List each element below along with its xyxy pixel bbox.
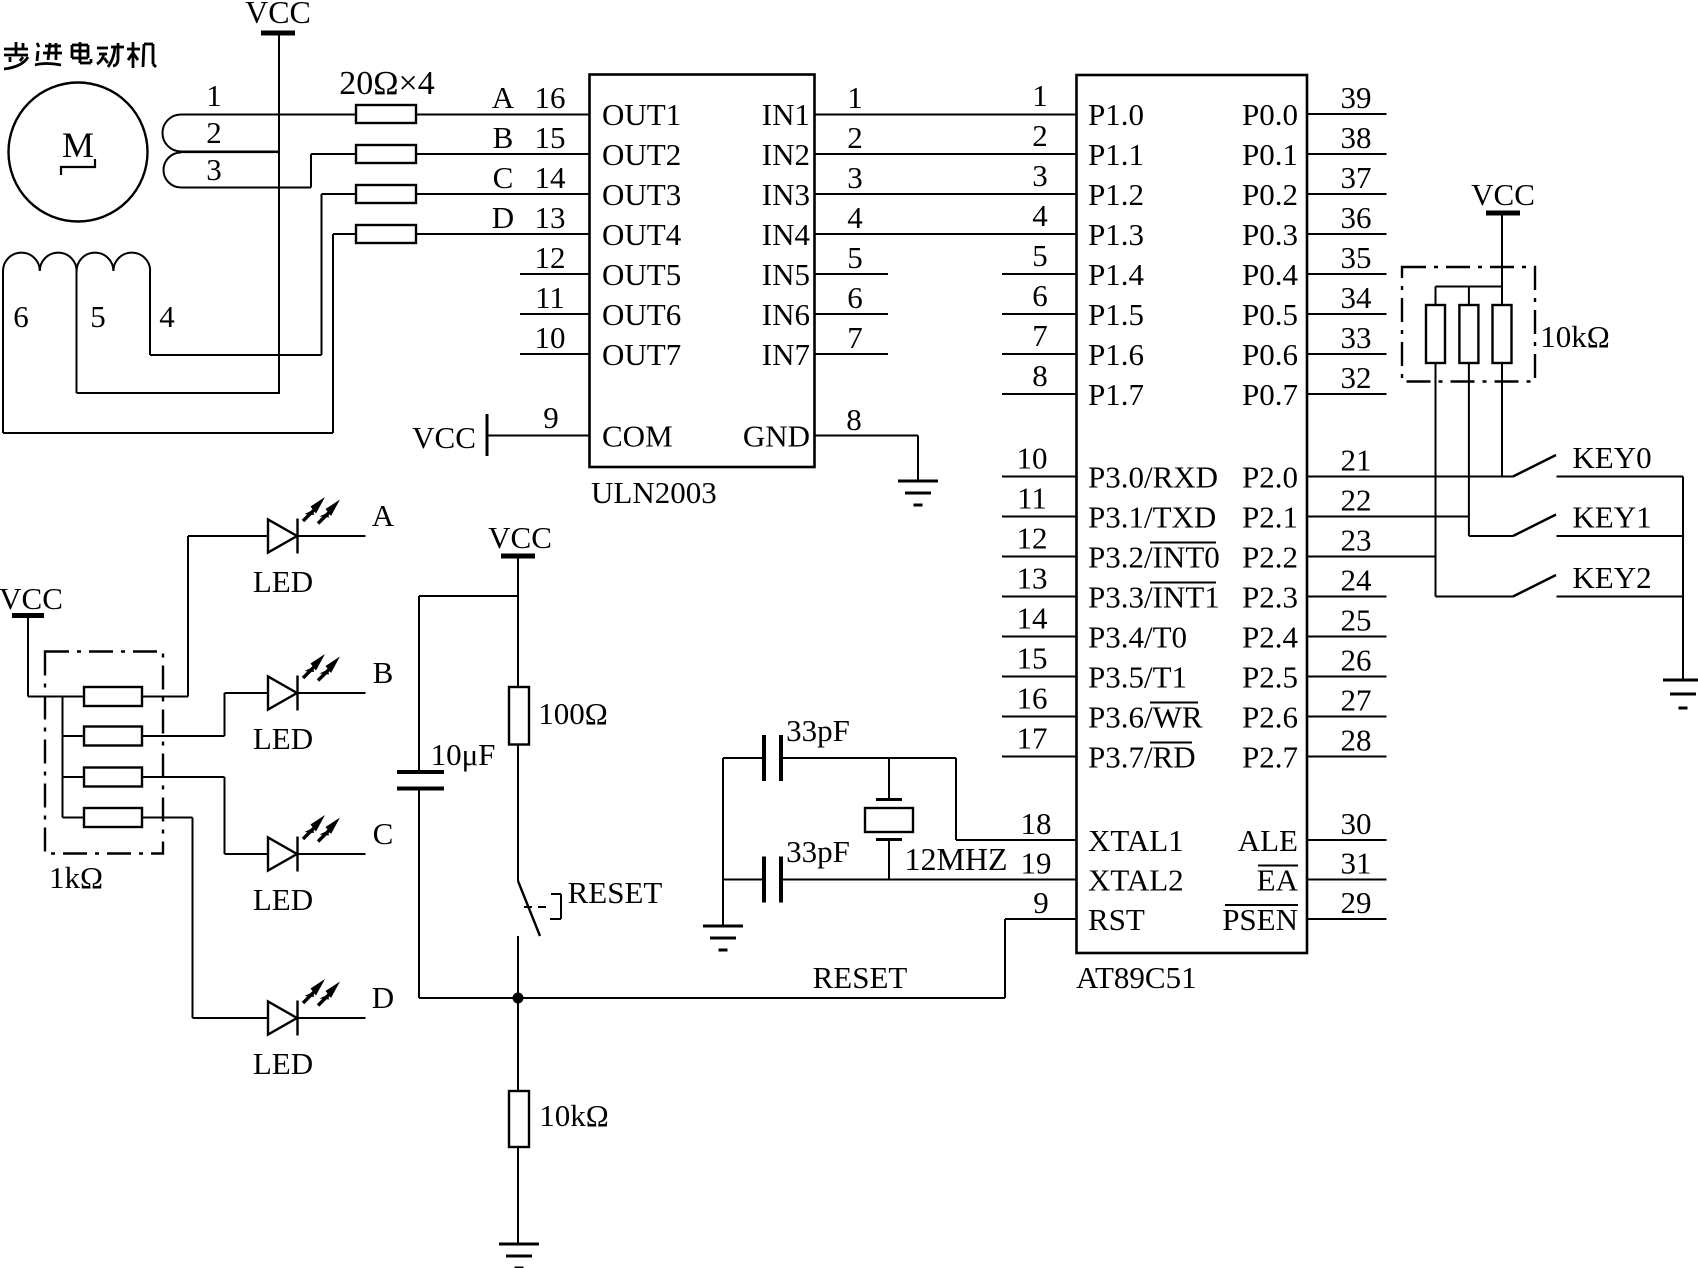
svg-text:P0.3: P0.3 — [1242, 217, 1298, 252]
svg-text:4: 4 — [1032, 198, 1048, 233]
svg-text:27: 27 — [1341, 683, 1372, 718]
switch KEY0 blade — [1513, 455, 1556, 477]
svg-text:P1.0: P1.0 — [1088, 97, 1144, 132]
wire - lead 5 run to VCC line — [77, 392, 280, 394]
svg-text:36: 36 — [1341, 200, 1372, 235]
wire - IN6 stub — [815, 313, 889, 315]
svg-text:10kΩ: 10kΩ — [539, 1098, 609, 1133]
wire - VCC to COM — [487, 435, 590, 437]
svg-text:PSEN: PSEN — [1222, 902, 1298, 937]
svg-text:19: 19 — [1021, 846, 1052, 881]
svg-text:ULN2003: ULN2003 — [591, 475, 717, 510]
wire - P2.1 to KEY1 riser — [1307, 516, 1469, 518]
wire - KEY1 to ground bus — [1557, 535, 1684, 537]
wire - P2.7 stub — [1307, 756, 1387, 758]
svg-text:6: 6 — [13, 299, 29, 334]
svg-text:20Ω×4: 20Ω×4 — [339, 65, 434, 102]
wire - PSEN stub — [1307, 918, 1387, 920]
svg-text:11: 11 — [535, 280, 565, 315]
svg-text:12: 12 — [535, 240, 566, 275]
svg-text:3: 3 — [847, 160, 863, 195]
svg-text:P3.0/RXD: P3.0/RXD — [1088, 460, 1218, 495]
svg-text:3: 3 — [206, 152, 222, 187]
wire - IN4 to P1.3 — [815, 233, 1077, 235]
svg-text:IN7: IN7 — [762, 337, 810, 372]
svg-text:GND: GND — [743, 419, 810, 454]
wire - VCC vertical feed to winding taps — [278, 35, 280, 394]
wire - lead 4 riser to resistor RC row — [321, 194, 323, 355]
ground symbol at key bus — [1663, 679, 1698, 682]
svg-text:33: 33 — [1341, 320, 1372, 355]
crystal Y1 12MHZ body — [876, 798, 902, 801]
svg-text:7: 7 — [1032, 318, 1048, 353]
svg-text:1: 1 — [1032, 78, 1048, 113]
wire - lead 6 bottom run to riser — [3, 432, 333, 434]
wire - Y1 bottom to C2 net — [888, 840, 890, 880]
wire - motor lead 1 to resistor RA — [181, 114, 356, 116]
svg-text:XTAL1: XTAL1 — [1088, 823, 1184, 858]
svg-text:10μF: 10μF — [431, 737, 496, 772]
svg-text:P1.5: P1.5 — [1088, 297, 1144, 332]
IC U2 AT89C51 body — [1077, 75, 1308, 953]
resistor RP1b 1kΩ — [63, 735, 85, 737]
wire - P0.7 stub — [1307, 393, 1387, 395]
svg-text:5: 5 — [90, 299, 106, 334]
wire - P0.1 stub — [1307, 153, 1387, 155]
wire - IN1 to P1.0 — [815, 114, 1077, 116]
wire - P2.5 stub — [1307, 676, 1387, 678]
svg-text:11: 11 — [1017, 481, 1047, 516]
svg-text:32: 32 — [1341, 360, 1372, 395]
wire - LED C anode out — [298, 853, 366, 855]
svg-text:VCC: VCC — [245, 0, 311, 30]
svg-text:EA: EA — [1257, 863, 1299, 898]
svg-text:8: 8 — [1032, 358, 1048, 393]
wire - ALE stub — [1307, 839, 1387, 841]
svg-text:9: 9 — [543, 400, 559, 435]
wire - KEY0 to ground bus — [1557, 476, 1684, 478]
svg-text:15: 15 — [535, 120, 566, 155]
svg-text:IN6: IN6 — [762, 297, 810, 332]
wire - switch bottom to reset node — [517, 936, 519, 998]
wire - LED A anode out — [298, 535, 366, 537]
svg-text:7: 7 — [847, 320, 863, 355]
svg-text:LED: LED — [253, 882, 313, 917]
svg-text:P3.7/RD: P3.7/RD — [1088, 740, 1196, 775]
svg-text:P2.6: P2.6 — [1242, 700, 1298, 735]
wire - OUT5 stub — [520, 273, 590, 275]
svg-text:KEY1: KEY1 — [1572, 500, 1651, 535]
switch S1 actuator — [524, 906, 546, 908]
svg-text:A: A — [372, 498, 395, 533]
svg-text:KEY2: KEY2 — [1572, 560, 1651, 595]
svg-text:16: 16 — [535, 80, 566, 115]
svg-text:LED: LED — [253, 721, 313, 756]
wire - P0.0 stub — [1307, 113, 1387, 115]
svg-text:1: 1 — [847, 80, 863, 115]
switch KEY2 blade — [1513, 575, 1556, 597]
wire - Y1 top to C1 net — [888, 758, 890, 800]
wire - R6 to ground — [517, 1147, 519, 1244]
svg-text:LED: LED — [253, 564, 313, 599]
svg-text:RESET: RESET — [568, 875, 663, 910]
wire - OUT7 stub — [520, 353, 590, 355]
wire - P3.5/T1 stub — [1002, 676, 1077, 678]
wire - LED D anode out — [298, 1017, 366, 1019]
wire - lead 6 drop — [2, 271, 4, 433]
wire - P0.4 stub — [1307, 273, 1387, 275]
svg-text:30: 30 — [1341, 806, 1372, 841]
resistor RB (20Ω) — [356, 145, 416, 163]
wire - P3.2/INT0 stub — [1002, 556, 1077, 558]
svg-text:29: 29 — [1341, 885, 1372, 920]
svg-text:9: 9 — [1033, 885, 1049, 920]
svg-text:OUT3: OUT3 — [602, 177, 681, 212]
wire - P0.3 stub — [1307, 233, 1387, 235]
svg-text:24: 24 — [1341, 563, 1373, 598]
svg-text:6: 6 — [1032, 278, 1048, 313]
svg-text:B: B — [373, 655, 394, 690]
capacitor C2 plates — [762, 857, 766, 903]
wire - XTAL1 riser — [955, 758, 957, 840]
svg-text:D: D — [372, 980, 394, 1015]
svg-text:39: 39 — [1341, 80, 1372, 115]
wire - C3 bottom to reset node — [418, 789, 420, 999]
svg-text:3: 3 — [1032, 158, 1048, 193]
wire - P0.6 stub — [1307, 353, 1387, 355]
wire - C1 right to XTAL1 net — [781, 757, 956, 759]
svg-text:KEY0: KEY0 — [1572, 440, 1651, 475]
svg-text:15: 15 — [1017, 641, 1048, 676]
svg-text:OUT1: OUT1 — [602, 97, 681, 132]
svg-text:28: 28 — [1341, 723, 1372, 758]
svg-text:VCC: VCC — [488, 520, 552, 555]
ground symbol at reset divider — [499, 1243, 539, 1246]
resistor RP1c 1kΩ — [63, 776, 85, 778]
diode LED3 (C) symbol — [268, 838, 297, 871]
wire - RP1a riser to LED A — [187, 536, 189, 697]
wire - VCC down to R5 — [517, 556, 519, 687]
inductor winding humps (leads 6-5-4) — [3, 253, 150, 271]
svg-text:P2.3: P2.3 — [1242, 580, 1298, 615]
wire - LED B anode out — [298, 692, 366, 694]
svg-text:8: 8 — [846, 402, 862, 437]
diode LED2 (B) symbol — [268, 677, 297, 710]
wire - lead 4 run — [150, 354, 322, 356]
svg-text:RST: RST — [1088, 902, 1145, 937]
svg-text:6: 6 — [847, 280, 863, 315]
wire - keys ground bus — [1682, 477, 1684, 681]
wire - C2 left to ground rail — [723, 879, 764, 881]
svg-text:P3.1/TXD: P3.1/TXD — [1088, 500, 1216, 535]
svg-text:34: 34 — [1341, 280, 1373, 315]
motor winding loop 2-3 (stadium arc) — [164, 153, 182, 188]
resistor R6 10kΩ — [509, 1091, 529, 1147]
ground symbol at crystal — [703, 925, 743, 928]
motor M1 body circle — [9, 83, 148, 222]
text label 步进电动机 (stepper motor), drawn strokes — [4, 42, 156, 69]
wire - lead 5 drop — [76, 271, 78, 393]
switch KEY1 blade — [1513, 515, 1556, 537]
svg-text:12: 12 — [1017, 521, 1048, 556]
svg-text:12MHZ: 12MHZ — [904, 841, 1007, 877]
wire - P3.3/INT1 stub — [1002, 596, 1077, 598]
svg-text:2: 2 — [1032, 118, 1048, 153]
LED1 emission arrows — [303, 497, 340, 524]
svg-text:14: 14 — [535, 160, 567, 195]
svg-text:OUT6: OUT6 — [602, 297, 681, 332]
svg-text:VCC: VCC — [0, 581, 63, 616]
resistor RD (20Ω) — [356, 225, 416, 243]
svg-text:AT89C51: AT89C51 — [1076, 960, 1197, 995]
svg-text:4: 4 — [159, 299, 175, 334]
svg-text:13: 13 — [535, 200, 566, 235]
switch S1 RESET blade — [518, 881, 540, 936]
wire - motor lead 3 horizontal — [181, 187, 311, 189]
svg-text:OUT7: OUT7 — [602, 337, 681, 372]
svg-text:P0.2: P0.2 — [1242, 177, 1298, 212]
svg-text:P2.4: P2.4 — [1242, 620, 1298, 655]
svg-text:37: 37 — [1341, 160, 1372, 195]
wire - KEY1 riser segment — [1469, 535, 1513, 537]
resistor RP1d 1kΩ — [63, 817, 85, 819]
svg-text:18: 18 — [1021, 806, 1052, 841]
RP2 top bus — [1436, 286, 1503, 288]
svg-text:OUT4: OUT4 — [602, 217, 682, 252]
wire - P2.6 stub — [1307, 716, 1387, 718]
wire - RD to OUT4 — [416, 233, 590, 235]
svg-text:P3.3/INT1: P3.3/INT1 — [1088, 580, 1220, 615]
wire - RP1d drop to LED D — [192, 818, 194, 1019]
wire - KEY2 riser segment — [1436, 596, 1514, 598]
wire - OUT6 stub — [520, 313, 590, 315]
svg-text:P2.7: P2.7 — [1242, 740, 1298, 775]
wire - P0.2 stub — [1307, 193, 1387, 195]
wire - P3.6/WR stub — [1002, 716, 1077, 718]
LED3 emission arrows — [303, 815, 340, 842]
svg-text:P2.2: P2.2 — [1242, 540, 1298, 575]
svg-text:26: 26 — [1341, 643, 1372, 678]
svg-text:P1.7: P1.7 — [1088, 377, 1144, 412]
LED2 emission arrows — [303, 654, 340, 681]
svg-text:P0.7: P0.7 — [1242, 377, 1298, 412]
resistor RC (20Ω) — [356, 185, 416, 203]
svg-text:P0.1: P0.1 — [1242, 137, 1298, 172]
wire - IN2 to P1.1 — [815, 153, 1077, 155]
wire - lead 4 drop — [149, 271, 151, 355]
wire - P1.4 stub — [1002, 273, 1077, 275]
svg-text:P2.5: P2.5 — [1242, 660, 1298, 695]
wire - P2.4 stub — [1307, 636, 1387, 638]
svg-text:COM: COM — [602, 419, 673, 454]
svg-text:2: 2 — [847, 120, 863, 155]
svg-text:14: 14 — [1017, 601, 1049, 636]
ground symbol at U1 GND — [898, 480, 938, 483]
svg-text:P3.5/T1: P3.5/T1 — [1088, 660, 1187, 695]
wire - P3.7/RD stub — [1002, 756, 1077, 758]
wire - crystal ground rail — [722, 758, 724, 926]
wire - C1 left to ground rail — [723, 757, 764, 759]
svg-text:100Ω: 100Ω — [538, 696, 608, 731]
wire - RP1c drop to LED C — [224, 777, 226, 854]
capacitor C3 plates — [397, 770, 444, 774]
svg-text:10: 10 — [1017, 441, 1048, 476]
wire - VCC into RP2 — [1501, 213, 1503, 305]
resistor RA (20Ω) — [356, 105, 416, 123]
svg-text:33pF: 33pF — [786, 834, 850, 869]
svg-text:P0.6: P0.6 — [1242, 337, 1298, 372]
wire - R5 to switch — [517, 745, 519, 882]
svg-text:XTAL2: XTAL2 — [1088, 863, 1184, 898]
svg-text:M: M — [62, 125, 94, 165]
wire - P0.5 stub — [1307, 313, 1387, 315]
resistor RP2b 10kΩ — [1468, 287, 1470, 306]
svg-text:B: B — [493, 120, 514, 155]
LED4 emission arrows — [303, 979, 340, 1006]
svg-text:P3.6/WR: P3.6/WR — [1088, 700, 1203, 735]
svg-text:C: C — [493, 160, 514, 195]
svg-text:38: 38 — [1341, 120, 1372, 155]
wire - IN3 to P1.2 — [815, 193, 1077, 195]
svg-text:ALE: ALE — [1238, 823, 1298, 858]
svg-text:OUT5: OUT5 — [602, 257, 681, 292]
svg-text:10: 10 — [535, 320, 566, 355]
RP1 left bus — [62, 697, 64, 818]
wire - lead 6 riser to resistor RD row — [332, 234, 334, 433]
wire - P1.5 stub — [1002, 313, 1077, 315]
svg-text:P1.6: P1.6 — [1088, 337, 1144, 372]
wire - branch to C3 — [419, 595, 518, 597]
svg-text:A: A — [492, 80, 515, 115]
resistor pack RP1 boundary (dash-dot) — [45, 652, 163, 854]
diode LED4 (D) symbol — [268, 1002, 297, 1035]
wire - P3.4/T0 stub — [1002, 636, 1077, 638]
svg-text:5: 5 — [1032, 238, 1048, 273]
wire - reset node to RST pin — [419, 997, 1005, 999]
svg-text:22: 22 — [1341, 483, 1372, 518]
svg-text:P2.0: P2.0 — [1242, 460, 1298, 495]
svg-text:VCC: VCC — [412, 420, 476, 455]
wire - KEY2 to ground bus — [1557, 596, 1684, 598]
wire - P1.6 stub — [1002, 353, 1077, 355]
wire - lead 3 riser to B row — [310, 154, 312, 188]
svg-text:33pF: 33pF — [786, 713, 850, 748]
svg-text:P1.2: P1.2 — [1088, 177, 1144, 212]
wire - P1.7 stub — [1002, 393, 1077, 395]
motor M1 underline mark — [61, 159, 95, 175]
svg-text:P1.4: P1.4 — [1088, 257, 1144, 292]
svg-text:IN1: IN1 — [762, 97, 810, 132]
svg-text:P2.1: P2.1 — [1242, 500, 1298, 535]
svg-text:P1.3: P1.3 — [1088, 217, 1144, 252]
junction dot reset node — [513, 993, 524, 1004]
svg-text:P3.2/INT0: P3.2/INT0 — [1088, 540, 1220, 575]
svg-text:IN4: IN4 — [762, 217, 811, 252]
svg-text:IN5: IN5 — [762, 257, 810, 292]
motor winding loop 1-2 (stadium arc) — [162, 114, 181, 151]
wire - P3.1/TXD stub — [1002, 516, 1077, 518]
svg-text:4: 4 — [847, 200, 863, 235]
svg-text:P1.1: P1.1 — [1088, 137, 1144, 172]
wire - reset node to R6 — [517, 998, 519, 1091]
svg-text:31: 31 — [1341, 846, 1372, 881]
svg-text:D: D — [492, 200, 514, 235]
svg-text:17: 17 — [1017, 721, 1048, 756]
resistor RP2c 10kΩ — [1493, 305, 1512, 363]
svg-text:2: 2 — [206, 115, 222, 150]
svg-text:VCC: VCC — [1471, 177, 1535, 212]
svg-text:C: C — [373, 816, 394, 851]
wire - RA to OUT1 — [416, 114, 590, 116]
svg-text:IN2: IN2 — [762, 137, 810, 172]
wire - P2.2 to KEY2 riser — [1307, 556, 1436, 558]
wire - IN7 stub — [815, 353, 889, 355]
svg-text:10kΩ: 10kΩ — [1540, 319, 1610, 354]
svg-text:25: 25 — [1341, 603, 1372, 638]
wire - P2.3 stub — [1307, 596, 1387, 598]
svg-text:P0.4: P0.4 — [1242, 257, 1298, 292]
wire - U1 GND to ground — [815, 435, 919, 437]
svg-text:23: 23 — [1341, 523, 1372, 558]
svg-text:21: 21 — [1341, 443, 1372, 478]
wire - VCC to RP1 — [27, 616, 29, 697]
resistor pack RP2 boundary (dash-dot) — [1402, 267, 1535, 382]
svg-text:1: 1 — [206, 78, 222, 113]
svg-text:5: 5 — [847, 240, 863, 275]
resistor R5 100Ω — [509, 687, 529, 745]
svg-text:1kΩ: 1kΩ — [49, 860, 103, 895]
IC U1 ULN2003 body — [590, 75, 815, 468]
wire - P3.0/RXD stub — [1002, 476, 1077, 478]
wire - RB to OUT2 — [416, 153, 590, 155]
wire - C2 right to XTAL2 — [781, 879, 1077, 881]
svg-text:13: 13 — [1017, 561, 1048, 596]
svg-text:P3.4/T0: P3.4/T0 — [1088, 620, 1187, 655]
svg-text:P0.5: P0.5 — [1242, 297, 1298, 332]
resistor RP1a 1kΩ — [63, 696, 85, 698]
svg-text:RESET: RESET — [813, 960, 908, 995]
diode LED1 (A) symbol — [268, 520, 297, 553]
svg-text:LED: LED — [253, 1046, 313, 1081]
wire - motor lead 2 (center tap) to VCC line — [181, 151, 279, 154]
resistor RP2a 10kΩ — [1435, 287, 1437, 306]
svg-text:P0.0: P0.0 — [1242, 97, 1298, 132]
wire - P2.0 to KEY0 — [1307, 476, 1513, 478]
wire - IN5 stub — [815, 273, 889, 275]
wire - RP1b riser to LED B — [224, 693, 226, 736]
wire - EA stub — [1307, 879, 1387, 881]
capacitor C1 plates — [762, 735, 766, 781]
wire - RC to OUT3 — [416, 193, 590, 195]
svg-text:IN3: IN3 — [762, 177, 810, 212]
svg-text:OUT2: OUT2 — [602, 137, 681, 172]
svg-text:35: 35 — [1341, 240, 1372, 275]
svg-text:16: 16 — [1017, 681, 1048, 716]
